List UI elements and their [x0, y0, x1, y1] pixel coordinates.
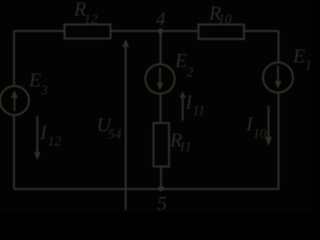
wire top-right segment — [244, 31, 279, 63]
wire I10 arrow shaft — [268, 106, 270, 138]
svg-text:12: 12 — [48, 134, 62, 149]
source E3 — [0, 86, 29, 115]
wire I11 arrow shaft — [182, 97, 184, 121]
svg-text:E: E — [28, 70, 41, 92]
svg-text:12: 12 — [84, 12, 98, 27]
arrow head E1 (down) — [275, 81, 282, 89]
svg-text:E: E — [174, 50, 187, 72]
source E2 — [145, 64, 174, 93]
node 5 junction dot — [158, 186, 164, 192]
wire left lower segment — [13, 115, 15, 189]
source E1 — [263, 63, 293, 93]
arrow head I12 (down) — [34, 152, 41, 160]
svg-text:11: 11 — [193, 103, 206, 118]
wire R11 to node 5 — [160, 167, 162, 190]
arrow head U54 (up) — [122, 39, 129, 47]
svg-text:5: 5 — [157, 193, 167, 213]
wire I12 arrow shaft — [36, 116, 38, 153]
wire right lower segment — [278, 93, 280, 190]
svg-text:1: 1 — [305, 58, 311, 73]
svg-text:54: 54 — [108, 126, 122, 141]
wire top-left segment — [14, 31, 65, 86]
node 4 junction dot — [158, 28, 164, 34]
resistor R11 — [154, 123, 170, 167]
svg-text:10: 10 — [218, 12, 232, 27]
wire E2 to R11 — [160, 94, 162, 123]
arrow head I10 (down) — [265, 137, 272, 146]
resistor R12 — [65, 25, 111, 39]
svg-text:3: 3 — [40, 83, 48, 98]
wire E2 arrow shaft — [159, 68, 161, 84]
arrow head I11 (up) — [180, 92, 186, 98]
arrow head E2 (down) — [157, 83, 164, 91]
resistor R10 — [199, 25, 245, 40]
svg-text:2: 2 — [187, 64, 194, 79]
wire top middle segment — [111, 30, 199, 32]
wire bottom — [14, 188, 280, 190]
svg-text:11: 11 — [179, 139, 192, 154]
svg-text:4: 4 — [156, 9, 166, 30]
svg-text:E: E — [292, 46, 305, 68]
wire E3 arrow shaft — [14, 95, 16, 111]
wire U54 reference line — [125, 46, 127, 210]
wire middle upper (node 4 to E2) — [160, 31, 162, 65]
wire E1 arrow shaft — [277, 66, 279, 82]
arrow head E3 (up) — [11, 90, 18, 98]
svg-text:10: 10 — [253, 126, 267, 141]
